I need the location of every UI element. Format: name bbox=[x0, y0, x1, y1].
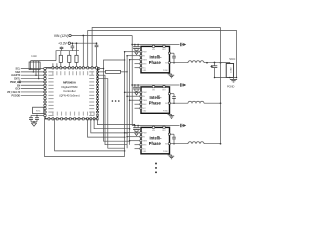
capacitor C2b input bbox=[136, 84, 140, 91]
svg-text:VR_FAULT#: VR_FAULT# bbox=[7, 91, 21, 94]
capacitor C2 bypass bbox=[71, 42, 75, 50]
ground PGND output bbox=[230, 78, 237, 83]
pin TSEN U3 bbox=[129, 99, 148, 102]
capacitor C1c bootstrap bbox=[168, 52, 176, 63]
svg-text:PGND: PGND bbox=[227, 84, 235, 88]
pin label VR_FAULT# bbox=[7, 91, 21, 94]
svg-text:PWM_EN: PWM_EN bbox=[10, 82, 21, 84]
label PGND U3 bbox=[163, 111, 169, 113]
pin label CNTL bbox=[14, 79, 21, 81]
pin EN U4 bbox=[126, 136, 145, 139]
pin EN U2 bbox=[126, 55, 145, 58]
pin label SDA bbox=[15, 71, 20, 74]
svg-text:SDA: SDA bbox=[15, 71, 20, 74]
svg-text:NTC: NTC bbox=[36, 110, 41, 112]
wire ISEN2 from U1 right bbox=[98, 75, 128, 145]
svg-text:PWM: PWM bbox=[143, 133, 148, 135]
pin PWM U2 bbox=[124, 51, 147, 54]
pin VCC U3 bbox=[135, 107, 147, 110]
pin SW U3 output bbox=[165, 102, 188, 105]
wire L2 to output rail bbox=[204, 102, 221, 104]
label GND U4 bbox=[143, 151, 147, 153]
svg-text:VCC: VCC bbox=[229, 57, 235, 61]
thermistor NT1 bbox=[33, 107, 45, 113]
pin BST U2 bbox=[162, 45, 165, 52]
label PGND U4 bbox=[163, 151, 169, 153]
wire VIN rail bbox=[71, 35, 132, 37]
pin label EN bbox=[17, 85, 21, 87]
svg-text:SW: SW bbox=[165, 63, 168, 65]
pin VCC U2 bbox=[135, 67, 147, 70]
junction VIN phase1 bbox=[131, 44, 133, 46]
wire pull-up tie bbox=[31, 60, 56, 62]
wire bus vertical A bbox=[124, 52, 126, 157]
wire cap commoning bbox=[31, 121, 37, 123]
resistor R2 VDD filter bbox=[59, 51, 62, 68]
pin label OC# bbox=[15, 89, 20, 91]
junction 3.3V riser bbox=[76, 42, 78, 50]
wire bus vertical C bbox=[129, 60, 131, 145]
svg-text:PGND: PGND bbox=[163, 70, 169, 72]
wire GND remote sense bbox=[88, 31, 237, 78]
wire bus vertical B bbox=[126, 56, 128, 149]
svg-text:PGND: PGND bbox=[163, 111, 169, 113]
capacitor C4 bbox=[29, 115, 33, 121]
label 1kohm bbox=[31, 55, 36, 58]
junction VIN to U1 bbox=[82, 35, 84, 37]
wire PWM2 from U1 bbox=[94, 119, 130, 130]
ground U3 power bbox=[168, 113, 174, 118]
wire ISEN3 from U1 right bbox=[98, 79, 125, 149]
label U2 Phase bbox=[149, 60, 162, 65]
svg-text:BST: BST bbox=[162, 49, 165, 51]
net label +3.3V bbox=[58, 42, 68, 46]
pin SW U2 output bbox=[165, 62, 188, 65]
wire 3.3V filter node bbox=[56, 51, 79, 61]
capacitor C3d VIN bypass w/ PGND arrow bbox=[165, 124, 186, 128]
svg-text:Phase: Phase bbox=[149, 141, 162, 146]
label U1 part number bbox=[63, 81, 77, 85]
wire AGND bus bottom bbox=[45, 119, 125, 157]
wire VIN vertical to phases bbox=[131, 36, 133, 126]
capacitor C3 VCC decoupling bbox=[95, 42, 99, 67]
transistor block U2 Intelli-Phase power stage bbox=[141, 46, 170, 72]
resistor R4 VDD filter bbox=[75, 51, 78, 68]
svg-text:Controller: Controller bbox=[63, 89, 76, 93]
label PGND U2 bbox=[163, 70, 169, 72]
wire phase1 VIN feed bbox=[132, 44, 165, 46]
junction pull-up ALERT bbox=[35, 74, 37, 76]
svg-text:BST: BST bbox=[162, 130, 165, 132]
svg-text:LOAD: LOAD bbox=[229, 67, 232, 73]
ground phase2 input caps bbox=[135, 91, 139, 95]
pin VIN U4 bbox=[152, 126, 156, 133]
wire VR_FAULT# input bbox=[21, 91, 45, 93]
label U3 Phase bbox=[149, 101, 162, 106]
ground below C4 C5 bbox=[31, 121, 36, 126]
svg-text:1 kΩ: 1 kΩ bbox=[31, 55, 36, 58]
pin label PWM_EN bbox=[10, 82, 21, 84]
capacitor C1 bypass bbox=[60, 47, 64, 51]
wire TSEN from U1 bottom left bbox=[55, 119, 126, 152]
ground U2 power bbox=[168, 73, 174, 78]
svg-text:VIN (12V): VIN (12V) bbox=[54, 34, 68, 38]
wire SCL input bbox=[21, 68, 45, 70]
capacitor C3c bootstrap bbox=[168, 133, 176, 144]
pin EN U3 bbox=[126, 95, 145, 98]
wire output rail bbox=[220, 28, 222, 144]
wire PGOOD input bbox=[21, 94, 45, 96]
svg-text:PWM: PWM bbox=[143, 52, 148, 54]
svg-text:PGOOD: PGOOD bbox=[12, 95, 21, 97]
wire phase2 VIN feed bbox=[132, 84, 165, 86]
label VCC bbox=[229, 57, 235, 61]
ground phase1 input caps bbox=[135, 51, 139, 55]
resistor network RN1 pull-ups bbox=[29, 61, 40, 79]
pin label SCL bbox=[16, 69, 21, 71]
wire CNTL input bbox=[21, 78, 45, 80]
wire L1 to output rail bbox=[204, 62, 221, 64]
capacitor C3a input bbox=[133, 125, 137, 132]
wire output to load bbox=[221, 63, 230, 64]
svg-text:EN: EN bbox=[17, 85, 21, 87]
op-amp U1 digital PWM controller body bbox=[44, 67, 99, 120]
capacitor C2d VIN bypass w/ PGND arrow bbox=[165, 83, 186, 87]
wire PWM_EN input bbox=[19, 81, 45, 83]
svg-text:+3.3V: +3.3V bbox=[58, 42, 68, 46]
capacitor C6 bulk output bbox=[210, 62, 217, 78]
transistor block U3 Intelli-Phase power stage bbox=[141, 87, 170, 113]
pin ISEN U4 bbox=[135, 144, 148, 147]
label U1 line2 bbox=[62, 85, 78, 89]
capacitor C1d VIN bypass w/ PGND arrow bbox=[165, 43, 186, 47]
wire ISEN1 from U1 right bbox=[98, 67, 130, 141]
wire phase1 feed upper bbox=[104, 59, 126, 68]
pin VIN U3 bbox=[152, 85, 156, 92]
label U1 line4 bbox=[59, 93, 79, 97]
svg-text:PWM: PWM bbox=[143, 92, 148, 94]
pin ISEN U3 bbox=[135, 103, 148, 106]
pin label PGOOD bbox=[12, 95, 21, 97]
label GND U2 bbox=[143, 70, 147, 72]
svg-text:SW: SW bbox=[165, 103, 168, 105]
wire ALERT# input bbox=[21, 74, 45, 76]
wire VCC cap feed bbox=[31, 115, 45, 117]
terminal +3.3V input bbox=[68, 42, 70, 44]
svg-text:OC#: OC# bbox=[15, 89, 20, 91]
svg-text:ALERT#: ALERT# bbox=[11, 74, 21, 77]
capacitor C3b input bbox=[136, 125, 140, 132]
svg-text:Intelli-: Intelli- bbox=[149, 54, 162, 59]
label U3 Intelli bbox=[149, 95, 162, 100]
wire U1 top pin stub 2 bbox=[56, 63, 58, 68]
wire PWM3 from U1 bbox=[91, 119, 128, 134]
label U4 Phase bbox=[149, 141, 162, 146]
wire VIN drop to controller bbox=[82, 36, 84, 68]
svg-text:SCL: SCL bbox=[16, 69, 21, 71]
pin VIN U2 bbox=[152, 45, 156, 52]
ground U4 power bbox=[168, 154, 174, 159]
svg-text:Intelli-: Intelli- bbox=[149, 95, 162, 100]
wire phase3 VIN feed bbox=[132, 125, 165, 127]
capacitor C2c bootstrap bbox=[168, 93, 176, 104]
transistor block U4 Intelli-Phase power stage bbox=[141, 127, 170, 153]
junction pull-up SCL bbox=[30, 68, 32, 70]
inductor L2 bbox=[188, 101, 204, 103]
wire SDA input bbox=[21, 71, 45, 73]
ellipsis phase bus dots bbox=[112, 100, 120, 102]
label U2 Intelli bbox=[149, 54, 162, 59]
wire L3 to output rail bbox=[204, 143, 221, 145]
label GND U3 bbox=[143, 111, 147, 113]
svg-text:Phase: Phase bbox=[149, 101, 162, 106]
junction pull-up SDA bbox=[33, 71, 35, 73]
capacitor C1a input bbox=[133, 44, 137, 51]
svg-text:Intelli-: Intelli- bbox=[149, 135, 162, 140]
svg-text:Phase: Phase bbox=[149, 60, 162, 65]
ground phase3 input caps bbox=[135, 132, 139, 136]
resistor R5 sense series bbox=[98, 70, 128, 73]
wire load bottom node bbox=[214, 77, 238, 79]
inductor L1 bbox=[188, 61, 204, 63]
wire +3.3V rail bbox=[71, 42, 97, 44]
pin ISEN U2 bbox=[135, 63, 148, 66]
pin TSEN U4 bbox=[129, 140, 148, 143]
capacitor C5 bbox=[35, 115, 39, 121]
pin TSEN U2 bbox=[129, 59, 148, 62]
pin VCC U4 bbox=[135, 148, 147, 151]
wire PWM1 from U1 bbox=[97, 119, 135, 126]
label PGND output bbox=[227, 84, 235, 88]
pin PWM U4 bbox=[124, 132, 147, 135]
pin BST U3 bbox=[162, 85, 165, 92]
wire PWM4 from U1 bbox=[88, 119, 126, 138]
terminal VIN 12V input bbox=[69, 34, 71, 36]
pin BST U4 bbox=[162, 126, 165, 133]
svg-text:SW: SW bbox=[165, 144, 168, 146]
resistor RL load bbox=[226, 64, 233, 78]
wire VOUT remote sense bbox=[92, 28, 220, 68]
junction pull-up CNTL bbox=[38, 78, 40, 80]
svg-text:(QFN-40 5x5mm): (QFN-40 5x5mm) bbox=[59, 93, 79, 97]
capacitor C1b input bbox=[136, 44, 140, 51]
pin SW U4 output bbox=[165, 143, 188, 146]
junction VIN phase2 bbox=[131, 84, 133, 86]
label U4 Intelli bbox=[149, 135, 162, 140]
svg-text:PGND: PGND bbox=[163, 151, 169, 153]
inductor L3 bbox=[188, 142, 204, 144]
wire EN input bbox=[21, 84, 45, 86]
label U1 line3 bbox=[63, 89, 76, 93]
capacitor C2a input bbox=[133, 84, 137, 91]
wire U1 top pin stub 1 bbox=[52, 63, 54, 68]
wire OC# input bbox=[21, 88, 45, 90]
junction phase1 sense tap bbox=[206, 62, 208, 64]
pin label ALERT# bbox=[11, 74, 21, 77]
ellipsis more phases vertical bbox=[155, 163, 157, 174]
svg-text:CNTL: CNTL bbox=[14, 79, 21, 81]
net label VIN (12V) bbox=[54, 34, 68, 38]
resistor R3 VDD filter bbox=[68, 51, 71, 68]
svg-text:BST: BST bbox=[162, 90, 165, 92]
pin PWM U3 bbox=[124, 91, 147, 94]
